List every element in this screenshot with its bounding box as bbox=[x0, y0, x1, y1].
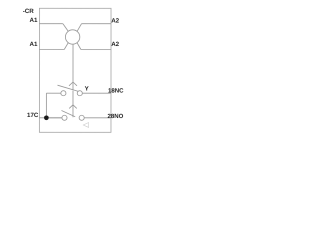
junction dot 17C bbox=[44, 115, 49, 120]
wire upper rail A1-A2 right segment bbox=[82, 23, 111, 25]
mechanical link upper vertical bbox=[72, 44, 74, 82]
svg-text:28NO: 28NO bbox=[107, 113, 123, 120]
coil U1 circle bbox=[65, 30, 79, 44]
wire NC right from contact to box edge 18NC bbox=[82, 92, 111, 94]
wire lower rail A1-A2 left segment bbox=[39, 48, 64, 50]
wire lower rail A1-A2 right segment bbox=[81, 49, 111, 51]
svg-text:18NC: 18NC bbox=[108, 87, 124, 94]
svg-text:Y: Y bbox=[85, 85, 90, 92]
NO contact right terminal circle bbox=[79, 115, 84, 120]
wire upper-left diagonal to coil bbox=[63, 24, 68, 32]
svg-text:17C: 17C bbox=[27, 112, 39, 119]
wire NC left from common corner to contact bbox=[46, 92, 60, 94]
mechanical link up-arrow left leg bbox=[69, 105, 73, 109]
mechanical link up-arrow right leg bbox=[73, 105, 77, 109]
NO contact left terminal circle bbox=[62, 115, 67, 120]
mechanical link fork left prong bbox=[69, 82, 73, 86]
wire lower-right diagonal to coil bbox=[77, 43, 81, 50]
wire lower-left diagonal to coil bbox=[64, 43, 68, 50]
svg-text:A2: A2 bbox=[111, 41, 119, 48]
mechanical link fork right prong bbox=[73, 82, 77, 86]
NC contact moving bar bbox=[57, 85, 78, 91]
svg-text:A1: A1 bbox=[30, 41, 38, 48]
NO contact moving bar bbox=[61, 110, 75, 116]
wire 17C from box edge to junction bbox=[39, 117, 61, 119]
mechanical link lower vertical bbox=[72, 91, 74, 117]
svg-text:-CR: -CR bbox=[23, 8, 35, 15]
device outline box bbox=[39, 8, 111, 132]
wire upper rail A1-A2 left segment bbox=[39, 23, 62, 25]
common vertical wire 17C bbox=[45, 93, 47, 118]
wire upper-right diagonal to coil bbox=[77, 24, 81, 32]
svg-text:A2: A2 bbox=[111, 17, 119, 24]
wire NO row junction to left contact bbox=[49, 117, 62, 119]
triangle marker at NO contact bbox=[83, 123, 88, 128]
mechanical link fork stem to NC bar bbox=[72, 82, 74, 91]
svg-text:A1: A1 bbox=[30, 17, 38, 24]
wire NO right from contact to box edge 28NO bbox=[84, 117, 111, 119]
NC contact left terminal circle bbox=[61, 91, 66, 96]
NC contact right terminal circle bbox=[77, 91, 82, 96]
